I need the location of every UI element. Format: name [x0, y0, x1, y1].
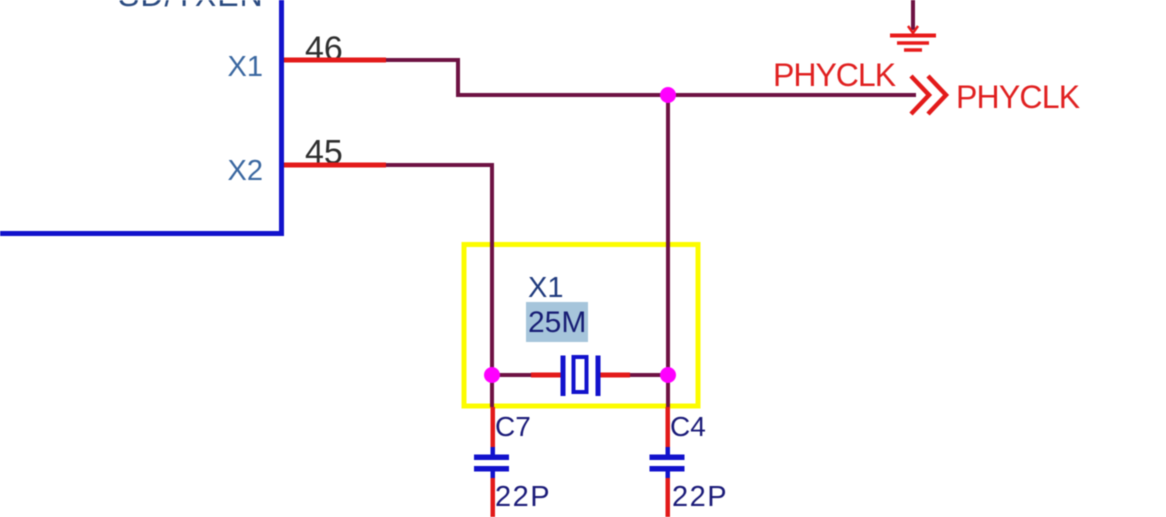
ground symbol: [890, 26, 936, 50]
crystal X1 symbol: [561, 356, 601, 397]
junction dot on PHYCLK wire: [660, 87, 676, 103]
junction dot right: [660, 367, 676, 383]
svg-text:PHYCLK: PHYCLK: [956, 79, 1080, 115]
wire dot to crystal left: [492, 373, 533, 377]
pin 46 lead (red): [284, 58, 386, 63]
ground wire (top right): [911, 0, 915, 30]
wire corner down: [456, 58, 460, 97]
pin 45 lead (red): [284, 163, 386, 168]
wire dot to C7 (red): [491, 407, 496, 449]
svg-text:X1: X1: [228, 51, 263, 83]
wire C4 down (red): [666, 478, 671, 517]
wire pin46 to corner: [386, 58, 460, 62]
value highlight: [526, 302, 588, 342]
crystal left lead (red): [531, 373, 561, 378]
svg-text:C4: C4: [670, 411, 706, 442]
wire X2 net vertical (left): [490, 163, 494, 407]
svg-text:X1: X1: [528, 272, 563, 304]
wire X1 net vertical (right): [666, 95, 670, 407]
wire pin45 to corner: [386, 163, 494, 167]
capacitor C4 symbol: [650, 447, 685, 479]
wire dot to C4 (red): [666, 407, 671, 449]
junction dot left: [484, 367, 500, 383]
wire crystal right to dot: [628, 373, 668, 377]
capacitor C7 symbol: [474, 447, 509, 479]
svg-text:X2: X2: [228, 155, 263, 187]
svg-text:C7: C7: [495, 411, 531, 442]
port chevron >>: [911, 76, 946, 114]
wire PHYCLK horizontal: [456, 93, 916, 97]
wire C7 down (red): [491, 478, 496, 517]
svg-text:25M: 25M: [528, 306, 586, 339]
crystal right lead (red): [600, 373, 630, 378]
svg-text:22P: 22P: [672, 481, 728, 513]
IC U? (PHY) body outline: [0, 0, 282, 234]
svg-text:SD/TXEN: SD/TXEN: [118, 0, 264, 13]
svg-text:22P: 22P: [495, 481, 551, 513]
yellow highlight box around crystal: [464, 245, 698, 407]
svg-text:PHYCLK: PHYCLK: [773, 57, 896, 93]
